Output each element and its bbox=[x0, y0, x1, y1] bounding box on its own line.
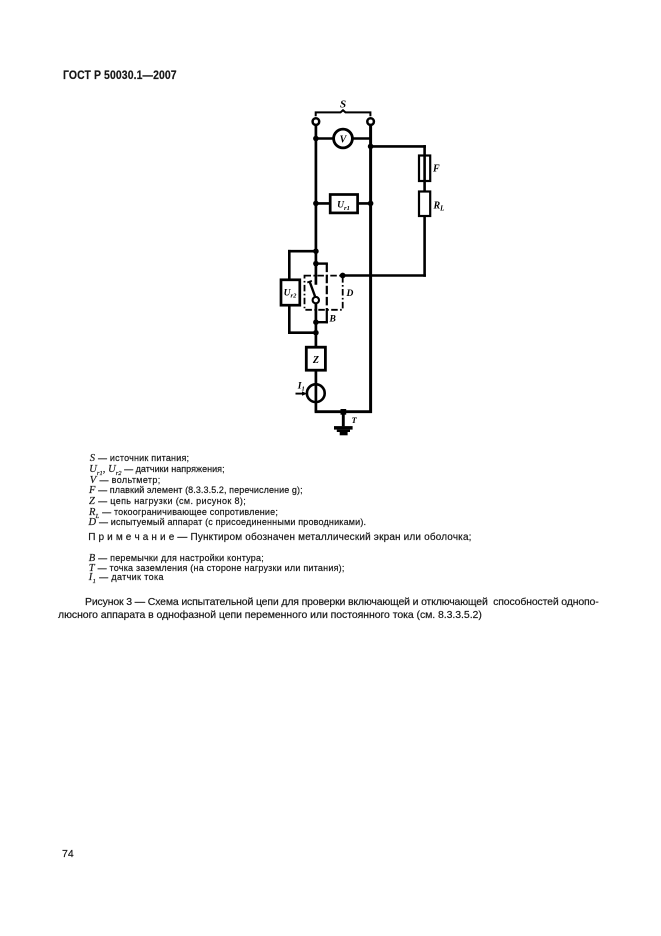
apparatus D screen box dash-dot bbox=[305, 276, 343, 310]
ground T symbol bbox=[334, 426, 353, 435]
svg-text:RL: RL bbox=[433, 201, 445, 213]
wire bottom horizontal bbox=[315, 410, 372, 413]
wire jumper top bbox=[316, 262, 328, 264]
source S label bbox=[340, 99, 346, 111]
node V-left junction bbox=[313, 136, 319, 142]
legend Z bbox=[89, 496, 246, 507]
node T junction bbox=[341, 409, 347, 415]
switch blade bbox=[307, 281, 315, 298]
terminal left bbox=[313, 118, 320, 125]
label B bbox=[329, 315, 336, 325]
node jumper bottom junction bbox=[313, 319, 319, 325]
fuse F bbox=[419, 156, 440, 182]
switch hinge contact bbox=[313, 297, 319, 303]
jumper B dashed vertical bbox=[326, 264, 328, 324]
resistor RL bbox=[419, 192, 444, 217]
wire left vertical upper bbox=[315, 125, 318, 285]
load Z bbox=[306, 347, 325, 370]
header bbox=[63, 70, 177, 80]
svg-text:F: F bbox=[432, 164, 440, 175]
label I1 bbox=[297, 382, 305, 393]
legend D bbox=[89, 517, 367, 528]
node jumper top junction bbox=[313, 261, 319, 267]
wire Ur2 bottom horizontal bbox=[288, 331, 316, 334]
wire right vertical bbox=[369, 125, 372, 413]
wire fuse branch vertical bbox=[423, 145, 426, 191]
wire Ur2 top horizontal bbox=[288, 250, 316, 253]
svg-text:D: D bbox=[346, 289, 354, 299]
caption line 1 bbox=[85, 597, 599, 607]
svg-text:B: B bbox=[329, 315, 336, 325]
node Ur2 bottom junction bbox=[313, 330, 319, 336]
svg-text:I1: I1 bbox=[297, 382, 305, 393]
ground T stem bbox=[342, 412, 345, 427]
wire voltmeter row bbox=[315, 137, 371, 140]
legend F bbox=[89, 485, 303, 496]
wire RL to lower branch bbox=[423, 216, 426, 277]
wire left vertical lower bbox=[315, 303, 318, 412]
legend T bbox=[89, 563, 345, 574]
voltmeter V bbox=[334, 129, 353, 148]
wire Ur2 left vertical upper bbox=[288, 250, 291, 280]
wire Ur2 left vertical lower bbox=[288, 305, 291, 334]
current sensor I1 bbox=[307, 384, 325, 402]
wire top branch horizontal bbox=[371, 145, 426, 148]
legend I1 bbox=[89, 572, 164, 583]
node branch junction bbox=[368, 144, 374, 150]
node Ur1 right bbox=[368, 201, 374, 207]
voltage sensor Ur1 bbox=[315, 195, 371, 213]
legend RL bbox=[89, 507, 278, 518]
svg-text:Z: Z bbox=[312, 355, 319, 366]
legend V bbox=[90, 475, 161, 486]
wire jumper bottom bbox=[316, 321, 328, 323]
legend B bbox=[89, 553, 264, 564]
svg-text:S: S bbox=[340, 99, 346, 111]
node Ur2 top junction bbox=[313, 248, 319, 254]
svg-text:T: T bbox=[352, 415, 358, 425]
label D bbox=[346, 289, 354, 299]
label T bbox=[352, 415, 358, 425]
voltage sensor Ur2 bbox=[281, 280, 300, 305]
source S bracket bbox=[316, 110, 371, 116]
node D corner junction bbox=[340, 273, 346, 279]
legend Ur1 Ur2 bbox=[89, 464, 224, 475]
arrow I1 bbox=[296, 391, 308, 395]
note bbox=[88, 533, 471, 543]
node Ur1 left bbox=[313, 201, 319, 207]
terminal right bbox=[367, 118, 374, 125]
page number bbox=[62, 849, 74, 859]
legend S bbox=[90, 453, 189, 464]
wire lower branch horizontal bbox=[341, 274, 426, 277]
caption line 2 bbox=[58, 610, 482, 620]
